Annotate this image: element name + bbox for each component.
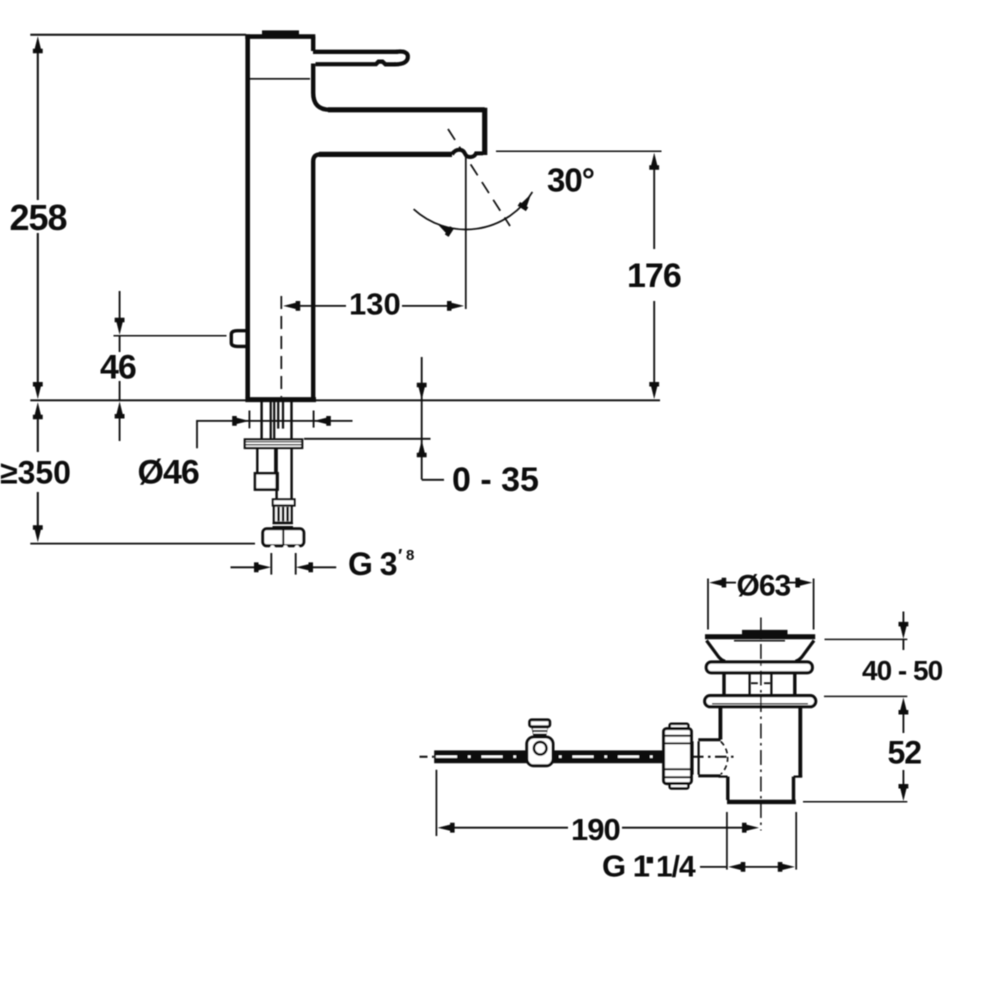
drain tail bottom edge	[727, 800, 796, 804]
handle lever rounded tip	[395, 52, 408, 65]
leader for 0-35	[422, 479, 444, 481]
tee collar	[691, 741, 693, 774]
svg-text:30°: 30°	[547, 162, 594, 199]
svg-text:130: 130	[349, 287, 401, 322]
drain body right wall	[798, 707, 802, 777]
dimension 40-50 line	[902, 612, 904, 628]
threaded section	[274, 506, 292, 523]
svg-text:0 - 35: 0 - 35	[452, 461, 539, 499]
right supply hose	[275, 448, 277, 499]
drain plug funnel right side	[796, 641, 815, 662]
svg-text:8: 8	[406, 547, 414, 564]
extension tick right G3/8	[295, 553, 297, 575]
spout top line	[328, 107, 485, 112]
extension line G1 right	[795, 812, 797, 870]
drain body step	[719, 775, 728, 777]
faucet body right edge lever to spout fillet	[313, 64, 330, 110]
drain lower flange	[705, 696, 816, 707]
rod nut grooves	[665, 735, 690, 737]
spout underside fillet into body	[313, 154, 320, 398]
pop-up rod white centerline	[436, 756, 663, 758]
svg-text:46: 46	[100, 349, 136, 387]
cartridge dashed centerline	[280, 296, 282, 397]
clamp screw neck	[531, 727, 548, 737]
left hose end block	[255, 473, 278, 489]
svg-text:≥350: ≥350	[0, 455, 71, 491]
handle lever underside with notch	[316, 62, 396, 65]
extension line rod end	[435, 770, 437, 836]
water stream vertical line	[465, 157, 467, 309]
side lever knob	[231, 331, 246, 347]
svg-text:258: 258	[10, 197, 67, 238]
countertop bottom line	[304, 438, 431, 440]
washer bands	[273, 522, 294, 524]
drain plug top inner line	[734, 640, 785, 642]
rod nut top cap	[670, 724, 689, 729]
dimension &#8805;350 line	[37, 415, 39, 452]
faucet body left edge	[245, 34, 250, 398]
extension line plug top level	[825, 638, 908, 640]
dimension 0-35 vertical line	[421, 357, 423, 480]
extension line faucet top	[30, 34, 246, 36]
handle lever top	[313, 50, 398, 54]
extension line diameter 63 right	[813, 579, 815, 630]
drain slot crossbars	[751, 682, 758, 684]
faucet base bottom edge	[245, 397, 316, 402]
svg-text:′: ′	[398, 546, 402, 566]
tee boss hidden arc	[721, 742, 728, 775]
swing arc with arrows	[414, 192, 533, 230]
spout right end edge	[482, 108, 487, 155]
svg-text:G 1: G 1	[602, 849, 650, 884]
spout bottom line	[319, 152, 452, 157]
left supply hose	[256, 448, 258, 473]
dimension 52 line top arrow	[902, 712, 904, 733]
dimension G 3/8 line	[231, 566, 257, 568]
dimension 52 line bottom arrow	[902, 770, 904, 788]
mounting flange	[245, 439, 302, 448]
dimension 258 line	[37, 50, 39, 200]
G 3/8 nut	[263, 529, 304, 546]
dimension 190 line	[452, 827, 568, 829]
spout aerator notch	[452, 150, 483, 157]
countertop base line	[30, 399, 660, 401]
svg-text:176: 176	[627, 257, 681, 295]
drain plug rim gasket	[706, 662, 812, 673]
30 degree dashed swivel line	[448, 129, 510, 226]
drain vertical centerline dash-dot	[760, 618, 762, 831]
shank verticals	[260, 402, 262, 439]
svg-text:40 - 50: 40 - 50	[862, 655, 943, 686]
clamp screw hole	[534, 742, 547, 755]
extension line tail bottom level	[803, 801, 907, 803]
extension line G1 left	[726, 812, 728, 870]
clamp body	[527, 737, 553, 766]
rod centerline into tee	[692, 756, 735, 758]
drain plug funnel left side	[707, 641, 726, 662]
dimension 46 line	[119, 291, 121, 322]
pop-up rod bar	[434, 750, 664, 763]
dimension diameter 63 line	[722, 582, 736, 584]
drain upper body left wall	[722, 673, 725, 695]
extension tick right of shank	[313, 411, 315, 428]
faucet body cap top	[245, 34, 315, 39]
clamp screw head	[530, 720, 550, 727]
tee boss top	[698, 738, 720, 741]
drain plug top cap	[705, 634, 815, 639]
rod nut body	[664, 729, 692, 784]
faucet cap top plateau	[262, 30, 299, 36]
svg-text:■: ■	[646, 852, 654, 867]
svg-text:52: 52	[888, 735, 922, 771]
drain plug top plateau	[742, 630, 788, 636]
clearance bottom line	[30, 543, 255, 545]
drain upper body right wall	[793, 673, 796, 695]
dimension 130 line	[299, 305, 346, 307]
drain body left wall	[719, 707, 723, 740]
faucet body right edge upper	[311, 37, 315, 51]
svg-text:Ø63: Ø63	[737, 570, 791, 603]
hose connector collar	[273, 499, 295, 505]
cap joint line	[250, 78, 310, 80]
svg-text:Ø46: Ø46	[138, 454, 199, 492]
dimension diameter 46 line with leader	[197, 421, 353, 448]
svg-text:G 3: G 3	[348, 546, 397, 582]
extension tick left of shank	[248, 411, 250, 429]
drain tail left wall	[726, 777, 729, 800]
extension line spout level	[496, 150, 662, 152]
svg-text:190: 190	[571, 812, 620, 847]
drain tail right wall	[792, 777, 795, 800]
extension line flange level	[824, 695, 907, 697]
rod nut bottom cap	[670, 784, 689, 789]
pop-up rod leading dash	[420, 756, 435, 758]
svg-text:1/4: 1/4	[656, 851, 696, 884]
extension line diameter 63 left	[707, 579, 709, 630]
extension line for 46 at side lever	[114, 335, 227, 337]
drain slot verticals	[748, 673, 750, 695]
dimension G 1 1/4 line	[700, 866, 726, 868]
tee boss bottom	[698, 774, 720, 777]
dimension 176 line	[653, 165, 655, 249]
extension tick left G3/8	[270, 553, 272, 575]
